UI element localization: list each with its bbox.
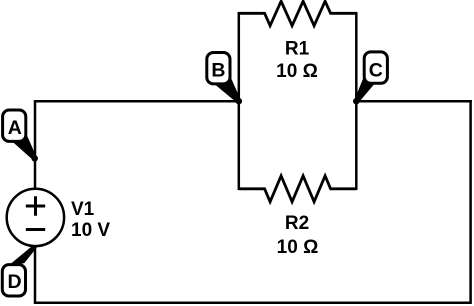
wire branch vertical at B <box>238 13 241 189</box>
svg-text:R1: R1 <box>285 39 310 60</box>
svg-text:10 Ω: 10 Ω <box>276 61 318 82</box>
svg-text:V1: V1 <box>71 199 95 220</box>
wire left vertical + top-left horizontal (A to B) <box>35 101 239 158</box>
wire right vertical + bottom + V1 minus riser <box>35 101 471 303</box>
svg-text:10 Ω: 10 Ω <box>277 237 319 258</box>
node D <box>2 265 25 296</box>
node C <box>355 52 388 103</box>
node D pointer tail <box>10 245 38 264</box>
wire node A down to V1 plus terminal <box>34 158 37 189</box>
svg-text:C: C <box>369 59 383 81</box>
junction A <box>31 155 38 162</box>
wire branch vertical at C <box>355 13 358 189</box>
node A <box>3 110 37 160</box>
svg-text:A: A <box>8 117 22 139</box>
wire node C to top-right corner <box>356 100 470 103</box>
resistor R1 <box>239 1 356 26</box>
voltage source V1 <box>7 189 64 246</box>
svg-text:R2: R2 <box>285 213 309 234</box>
junction B <box>236 98 243 105</box>
svg-text:B: B <box>211 60 225 82</box>
svg-text:D: D <box>7 271 21 293</box>
junction C <box>353 98 360 105</box>
resistor R2 <box>239 176 356 202</box>
node B <box>207 53 241 103</box>
svg-text:10 V: 10 V <box>71 220 110 241</box>
